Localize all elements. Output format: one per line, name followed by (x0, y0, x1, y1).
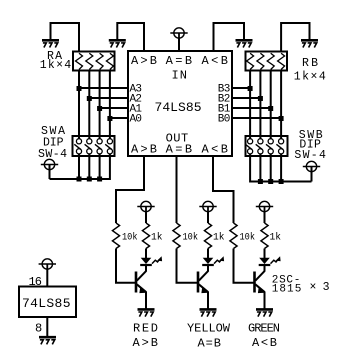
wire SWA2 to bus (88, 156, 90, 179)
wire RA4 to SWA (109, 70, 111, 137)
wire LED to collector (207, 265, 209, 271)
node junction B2 (258, 96, 263, 101)
transistor base bar (135, 272, 138, 293)
terminal VCC 3 (circle-cross) (259, 201, 269, 211)
svg-text:B0: B0 (218, 114, 231, 126)
svg-text:1k: 1k (151, 231, 163, 243)
terminal T3 (circle-cross) SWB common (306, 161, 316, 171)
wire RA1 to SWA (78, 70, 80, 137)
LED cathode bar (140, 264, 152, 266)
svg-text:10k: 10k (240, 231, 256, 243)
wire A1 pin stub (100, 107, 128, 109)
svg-text:GREEN: GREEN (248, 322, 280, 336)
svg-text:10k: 10k (183, 231, 199, 243)
wire T2 to bus (49, 165, 51, 180)
resistor network RA box (73, 52, 115, 71)
svg-text:A>B: A>B (131, 54, 157, 68)
wire power box to ground (46, 317, 48, 337)
resistor RA element 3 zigzag (96, 53, 103, 69)
resistor RB element 3 zigzag (267, 53, 274, 69)
svg-text:IN: IN (172, 69, 188, 83)
wire T4 to power box (46, 269, 48, 287)
wire A2 pin stub (89, 97, 128, 99)
node junction B3 (248, 86, 253, 91)
node junction A2 (87, 96, 92, 101)
svg-text:1k: 1k (270, 231, 282, 243)
wire VCC rail to RA network top (51, 23, 80, 53)
transistor base bar (197, 272, 200, 293)
wire U1 output to 10k R1 (116, 156, 144, 223)
wire RB network top to ground (281, 23, 309, 53)
svg-text:A>B: A>B (133, 336, 159, 350)
svg-text:74LS85: 74LS85 (155, 100, 202, 115)
wire 74LS85 cascade input A<B (top) to ground (214, 23, 245, 51)
wire 10k to base Q1 (116, 249, 136, 283)
svg-text:A<B: A<B (202, 54, 229, 68)
wire SWA1 to bus (78, 156, 80, 179)
node junction B1 (268, 106, 273, 111)
svg-text:1k: 1k (213, 231, 225, 243)
resistor R6 1k (261, 223, 268, 249)
terminal T4 (circle-cross) VCC pin 16 (42, 259, 52, 269)
ground below Q2 (200, 308, 217, 311)
wire emitter to ground (207, 292, 209, 309)
LED anode triangle (141, 258, 152, 264)
transistor emitter lead (255, 284, 265, 292)
wire A0 pin stub (110, 117, 128, 119)
svg-text:A0: A0 (130, 114, 143, 126)
svg-text:× 3: × 3 (310, 281, 330, 294)
resistor R4 1k (204, 223, 211, 249)
IC power box 74LS85 (19, 287, 76, 318)
wire B2 pin stub (232, 97, 260, 99)
resistor RB element 2 zigzag (257, 53, 264, 69)
wire 10k to base Q2 (177, 249, 199, 283)
ground G4 top-right (301, 39, 318, 42)
svg-text:RED: RED (133, 322, 158, 336)
wire T3 to bus (311, 167, 313, 182)
transistor emitter arrowhead (258, 288, 265, 293)
LED emission arrow (271, 259, 279, 263)
node bus junction A2 (87, 177, 92, 182)
wire RB1 to SWB (249, 70, 251, 137)
node junction A3 (77, 86, 82, 91)
resistor R3 10k (173, 223, 180, 249)
transistor collector lead (199, 271, 209, 281)
ground below Q1 (138, 308, 155, 311)
svg-text:YELLOW: YELLOW (187, 322, 231, 336)
svg-text:A=B: A=B (198, 337, 222, 351)
svg-text:A=B: A=B (166, 142, 193, 156)
wire A3 pin stub (79, 87, 128, 89)
LED emission arrow (214, 259, 222, 263)
resistor RA element 1 zigzag (76, 53, 83, 69)
wire B3 pin stub (232, 87, 250, 89)
wire T1 to IC top pin A=B (178, 38, 180, 51)
LED cathode bar (259, 264, 271, 266)
node bus junction A3 (97, 177, 102, 182)
wire SWB2 to bus (259, 156, 261, 182)
wire VCC to 1k R2 (145, 211, 147, 223)
svg-text:A<B: A<B (202, 142, 229, 156)
node bus junction B2 (258, 179, 263, 184)
transistor emitter lead (199, 284, 209, 292)
wire 10k to base Q3 (234, 249, 255, 283)
wire SWB1 to bus corner (250, 156, 311, 182)
svg-text:SW-4: SW-4 (38, 148, 67, 161)
wire RB4 to SWB (280, 70, 282, 137)
wire B1 pin stub (232, 107, 271, 109)
wire 1k to LED (207, 249, 209, 259)
wire SWA4 to bus corner (50, 156, 110, 179)
terminal VCC 2 (circle-cross) (203, 201, 213, 211)
switch SWA DIP box (73, 136, 115, 156)
wire RB2 to SWB (259, 70, 261, 137)
wire VCC to 1k R4 (207, 211, 209, 223)
svg-text:SW-4: SW-4 (294, 149, 326, 162)
resistor RB element 1 zigzag (247, 53, 254, 69)
transistor emitter arrowhead (139, 288, 146, 293)
switch SWB DIP box (246, 136, 288, 156)
node junction A1 (97, 106, 102, 111)
ground below power box (39, 336, 56, 339)
terminal VCC 1 (circle-cross) (141, 201, 151, 211)
transistor collector lead (137, 271, 147, 281)
wire RA2 to SWA (88, 70, 90, 137)
wire ground to 74LS85 cascade input A>B (top) (117, 23, 144, 51)
wire SWA3 to bus (99, 156, 101, 179)
LED anode triangle (259, 258, 270, 264)
svg-text:1815: 1815 (272, 283, 302, 295)
resistor RB element 4 zigzag (278, 53, 285, 69)
svg-text:74LS85: 74LS85 (22, 296, 71, 311)
terminal T2 (circle-cross) SWA common (44, 159, 54, 169)
ground G3 (236, 39, 253, 42)
wire U1 output to 10k R3 (176, 156, 178, 223)
wire 1k to LED (145, 249, 147, 259)
transistor collector lead (255, 271, 265, 281)
resistor R5 10k (230, 223, 237, 249)
svg-text:8: 8 (35, 322, 42, 336)
svg-text:RB: RB (302, 57, 318, 70)
resistor R1 10k (112, 223, 119, 249)
wire LED to collector (145, 265, 147, 271)
svg-text:A=B: A=B (166, 54, 193, 68)
op-amp U1 74LS85 comparator box (128, 51, 232, 156)
transistor emitter lead (137, 284, 147, 292)
resistor R2 1k (142, 223, 149, 249)
node bus junction B3 (268, 179, 273, 184)
svg-text:1k×4: 1k×4 (294, 71, 326, 84)
resistor network RB box (246, 52, 288, 71)
resistor RA element 4 zigzag (106, 53, 113, 69)
ground below Q3 (256, 308, 273, 311)
transistor base bar (253, 272, 256, 293)
wire SWB4 to bus (280, 156, 282, 182)
node junction B0 (279, 116, 284, 121)
terminal T1 (circle-cross) to cascade input A=B (174, 28, 184, 38)
node bus junction A1 (77, 177, 82, 182)
svg-text:1k×4: 1k×4 (40, 59, 72, 72)
svg-text:10k: 10k (122, 231, 138, 243)
wire SWB3 to bus (270, 156, 272, 182)
wire emitter to ground (264, 292, 266, 309)
wire LED to collector (264, 265, 266, 271)
resistor RA element 2 zigzag (86, 53, 93, 69)
LED anode triangle (203, 258, 214, 264)
LED cathode bar (202, 264, 214, 266)
wire RA3 to SWA (99, 70, 101, 137)
wire RB3 to SWB (270, 70, 272, 137)
ground G2 (109, 39, 126, 42)
wire U1 output to 10k R5 (213, 156, 234, 223)
svg-text:A<B: A<B (252, 336, 277, 350)
node junction A0 (107, 116, 112, 121)
wire 1k to LED (264, 249, 266, 259)
transistor emitter arrowhead (201, 288, 208, 293)
svg-text:A>B: A>B (131, 142, 157, 156)
ground G1 top-left (42, 39, 59, 42)
wire B0 pin stub (232, 117, 281, 119)
node bus junction B4 (279, 179, 284, 184)
LED emission arrow (152, 259, 160, 263)
wire emitter to ground (145, 292, 147, 309)
wire VCC to 1k R6 (264, 211, 266, 223)
